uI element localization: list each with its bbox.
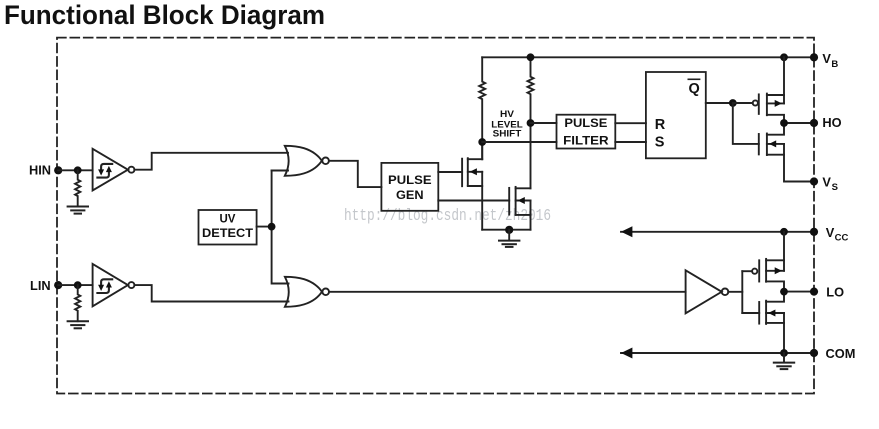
wire M5 source up — [783, 232, 785, 271]
node VCC junction — [780, 228, 788, 236]
wire VB rail — [482, 56, 814, 58]
svg-text:V: V — [822, 174, 831, 189]
svg-text:COM: COM — [826, 346, 856, 361]
pin HO — [810, 119, 818, 127]
svg-text:SHIFT: SHIFT — [493, 128, 522, 139]
svg-text:V: V — [822, 51, 831, 66]
node rail-R4 — [527, 53, 535, 61]
ground GND2 — [68, 321, 88, 328]
wire S line to PULSE FILTER — [482, 141, 556, 143]
wire sources rail — [482, 229, 530, 231]
NOR gate G2 — [285, 277, 329, 307]
wire M2 source down — [530, 215, 532, 230]
svg-text:HO: HO — [822, 115, 841, 130]
node UV junction — [268, 223, 276, 231]
box PULSE FILTER — [557, 115, 616, 149]
node HIN junction — [74, 166, 82, 174]
pin COM — [810, 349, 818, 357]
inverter U4 — [686, 270, 722, 313]
wire M6 source down — [783, 323, 785, 353]
svg-text:S: S — [655, 135, 665, 151]
wire interlock vertical — [272, 171, 289, 284]
wire M4 source to VS — [784, 155, 814, 182]
wire PULSE GEN out top (M1 gate) — [438, 171, 462, 173]
pin VCC — [810, 228, 818, 236]
node COM junction — [780, 349, 788, 357]
hysteresis symbol U1 — [97, 164, 112, 178]
svg-text:Functional Block Diagram: Functional Block Diagram — [4, 0, 325, 30]
resistor R3 (left level shift) — [479, 57, 485, 159]
wire U1 out to NOR1 — [134, 153, 288, 170]
transistor M2 — [509, 187, 530, 215]
wire M1 source down — [481, 186, 483, 230]
latch U3 (SR latch) — [646, 72, 706, 158]
pin VB — [810, 53, 818, 61]
node source junction — [505, 226, 513, 234]
box UV DETECT — [199, 210, 257, 245]
wire to P gate — [733, 102, 753, 104]
wire M3 source up — [783, 57, 785, 103]
pin HIN node — [54, 166, 62, 174]
hysteresis symbol U2 — [97, 279, 112, 293]
node LO junction — [780, 288, 788, 296]
pin LIN node — [54, 281, 62, 289]
wire HO out — [784, 122, 814, 124]
svg-text:GEN: GEN — [396, 190, 424, 202]
wire NOR1 out to PULSE GEN — [329, 161, 382, 187]
svg-text:UV: UV — [220, 214, 236, 226]
transistor M5 (low-side PMOS) — [752, 259, 784, 292]
svg-text:LIN: LIN — [30, 278, 51, 293]
label HV LEVEL SHIFT — [491, 109, 523, 140]
wire to M6 gate — [742, 312, 759, 314]
resistor R4 (right level shift) — [528, 57, 534, 188]
wire VCC line — [621, 231, 814, 233]
arrow COM — [621, 348, 632, 359]
wire PULSE FILTER to R — [615, 122, 646, 124]
wire M1 drain up — [481, 142, 483, 159]
transistor M6 (low-side NMOS) — [759, 292, 784, 324]
node LIN junction — [74, 281, 82, 289]
resistor R1 (HIN pulldown) — [75, 170, 80, 206]
IC boundary dashed border — [57, 38, 814, 394]
schmitt inverter U1 — [93, 149, 128, 191]
svg-text:Q: Q — [689, 81, 700, 97]
wire LO out — [784, 291, 814, 293]
node S junction — [478, 138, 486, 146]
pin VS — [810, 177, 818, 185]
wire NOR2 out long — [329, 291, 686, 293]
wire R line to PULSE FILTER — [531, 122, 557, 124]
node rail-M3 — [780, 53, 788, 61]
wire gate link vertical — [741, 271, 743, 313]
ground GND3 — [508, 230, 510, 241]
svg-text:PULSE: PULSE — [388, 175, 432, 187]
svg-text:B: B — [831, 59, 838, 70]
NOR gate G1 — [285, 146, 329, 176]
arrow VCC — [621, 226, 632, 237]
schmitt inverter U2 — [93, 264, 128, 306]
wire PULSE FILTER to S — [615, 141, 646, 143]
wire UV DETECT out — [257, 226, 272, 228]
transistor M4 (high-side NMOS) — [759, 123, 784, 155]
box PULSE GEN — [381, 163, 438, 211]
wire U2 out to NOR2 — [134, 285, 288, 301]
svg-text:FILTER: FILTER — [563, 135, 609, 147]
node latch out junction — [729, 99, 737, 107]
wire PULSE GEN out bottom (M2 gate) — [438, 200, 509, 202]
wire to N gate — [733, 103, 759, 144]
svg-text:R: R — [655, 117, 666, 133]
pin LO — [810, 288, 818, 296]
wire latch out — [706, 102, 733, 104]
svg-text:V: V — [826, 225, 835, 240]
wire COM line — [621, 352, 814, 354]
svg-text:HV: HV — [500, 109, 515, 120]
resistor R2 (LIN pulldown) — [75, 285, 80, 321]
ground GND4 — [783, 353, 785, 363]
svg-text:S: S — [832, 182, 838, 193]
node HO junction — [780, 119, 788, 127]
node R junction — [527, 119, 535, 127]
transistor M1 — [462, 158, 482, 186]
ground GND1 — [68, 207, 88, 214]
svg-text:PULSE: PULSE — [564, 118, 607, 130]
transistor M3 (high-side PMOS) — [753, 94, 784, 123]
wire NOR1 input link — [272, 170, 288, 172]
wire LIN to inverter — [58, 284, 92, 286]
wire U4 out — [728, 291, 742, 293]
svg-text:DETECT: DETECT — [202, 228, 253, 240]
wire to M5 gate — [742, 270, 752, 272]
svg-text:LO: LO — [826, 284, 844, 299]
svg-text:HIN: HIN — [29, 163, 51, 178]
wire HIN to inverter — [58, 169, 92, 171]
svg-text:CC: CC — [835, 233, 849, 244]
